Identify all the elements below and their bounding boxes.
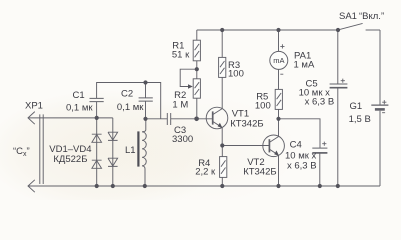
junction dot C5 top xyxy=(336,28,340,32)
connector XP1 double line xyxy=(40,114,43,184)
wire R2 bottom xyxy=(196,98,198,119)
battery G1 long positive plate xyxy=(371,104,388,106)
minus sign PA1 xyxy=(280,73,283,75)
svg-text:х 6,3 В: х 6,3 В xyxy=(287,160,317,171)
capacitor C2 plates xyxy=(139,98,153,101)
plus sign G1 xyxy=(382,100,386,104)
transistor VT2 body xyxy=(263,135,285,157)
svg-text:3300: 3300 xyxy=(172,134,193,145)
plus sign C5 xyxy=(341,79,345,83)
svg-text:100: 100 xyxy=(255,100,271,111)
wire VT1 emitter to VT2 base xyxy=(222,145,269,147)
meter PA1 body xyxy=(270,51,288,69)
battery G1 short negative plate xyxy=(375,108,385,111)
svg-text:C2: C2 xyxy=(121,89,133,100)
inductor L1 wire top xyxy=(142,119,146,132)
svg-text:C4: C4 xyxy=(290,139,302,150)
wire VT2 collector xyxy=(278,119,280,136)
inductor L1 wire bottom xyxy=(142,166,145,186)
junction dot C1 bottom xyxy=(95,116,99,120)
resistor R1 body xyxy=(193,40,200,61)
wire C2 top xyxy=(145,83,147,98)
junction dot R1 R2 xyxy=(195,67,199,71)
wire R5 bottom xyxy=(278,109,280,118)
arrowhead R2 wiper xyxy=(188,84,193,88)
wire diode column right drop xyxy=(112,118,114,186)
arrowhead VT2 emitter xyxy=(274,151,279,156)
capacitor C4 plates xyxy=(312,147,327,149)
wire R3 top xyxy=(221,30,223,57)
wire diode column left xyxy=(96,118,98,186)
junction dot L1 bottom xyxy=(143,184,147,188)
svg-text:“Вкл.”: “Вкл.” xyxy=(359,11,384,22)
diode VD2 xyxy=(92,160,102,168)
wire R4 top xyxy=(221,146,223,157)
junction dot diode right bottom xyxy=(111,184,115,188)
junction dot R4 top xyxy=(220,143,224,147)
bottom rail xyxy=(28,185,380,187)
diode VD1 xyxy=(92,134,102,142)
wire base bus through C3 xyxy=(146,118,213,120)
resistor R2 body xyxy=(193,79,200,98)
svg-text:1 М: 1 М xyxy=(172,99,188,110)
junction dot R3 top xyxy=(220,28,224,32)
top rail xyxy=(197,29,339,31)
svg-text:L1: L1 xyxy=(125,145,136,156)
svg-text:100: 100 xyxy=(228,69,244,80)
junction dot C2 bottom xyxy=(143,117,147,121)
svg-text:mA: mA xyxy=(273,56,284,65)
junction dot R4 bottom xyxy=(220,184,224,188)
svg-text:1,5 В: 1,5 В xyxy=(349,114,371,125)
connector XP1 top arrow xyxy=(28,112,35,125)
wire VT1 emitter xyxy=(221,128,223,146)
wire top right segment xyxy=(366,29,380,31)
junction dot C2 top xyxy=(143,80,147,84)
svg-text:0,1 мк: 0,1 мк xyxy=(117,102,144,113)
switch SA1 lever xyxy=(338,23,362,29)
wire R4 bottom xyxy=(221,177,223,186)
connector XP1 bottom arrow xyxy=(28,180,35,192)
wire C1 bottom xyxy=(96,102,98,118)
junction dot C5 bottom xyxy=(336,184,340,188)
svg-text:х 6,3 В: х 6,3 В xyxy=(305,96,335,107)
junction dot VT1 base xyxy=(194,117,199,122)
wire R2 wiper xyxy=(180,69,197,86)
plus sign C4 xyxy=(322,142,326,146)
capacitor C1 plates xyxy=(90,98,104,101)
junction dot C4 bottom xyxy=(318,184,322,188)
junction dot VT2 emitter bottom xyxy=(276,184,280,188)
svg-text:КТ342Б: КТ342Б xyxy=(230,119,263,130)
wire top cap bus xyxy=(97,83,161,119)
wire R3 to VT1 collector xyxy=(221,77,223,108)
svg-text:SA1: SA1 xyxy=(339,11,357,22)
wire XP1 top terminal xyxy=(28,117,113,119)
junction dot diode left bottom xyxy=(95,184,99,188)
transistor VT1 body xyxy=(206,107,228,129)
wire battery to bottom rail xyxy=(379,111,381,186)
wire C2 bottom xyxy=(145,101,147,119)
svg-text:1 мА: 1 мА xyxy=(294,60,315,71)
svg-text:0,1 мк: 0,1 мк xyxy=(66,103,93,114)
minus sign G1 xyxy=(382,112,385,114)
diode VD4 xyxy=(108,158,118,166)
wire R5 junction to C4 xyxy=(279,119,321,148)
wire R1 to R2 xyxy=(196,61,198,79)
svg-text:“Сх”: “Сх” xyxy=(13,146,30,158)
wire VT2 emitter xyxy=(278,156,280,186)
svg-text:2,2 к: 2,2 к xyxy=(195,167,216,178)
resistor R5 body xyxy=(275,89,282,109)
resistor R4 body xyxy=(220,157,227,178)
wire C5 bottom xyxy=(337,88,339,186)
junction dot PA1 top xyxy=(276,28,280,32)
svg-text:51 к: 51 к xyxy=(172,49,190,60)
resistor R3 body xyxy=(219,57,226,77)
svg-text:КД522Б: КД522Б xyxy=(53,154,87,165)
wire right vertical to battery xyxy=(379,30,381,105)
diode VD3 xyxy=(108,132,118,140)
wire C5 top xyxy=(337,30,339,84)
capacitor C5 plates xyxy=(330,83,348,85)
plus sign PA1 xyxy=(280,44,284,48)
wire PA1 top xyxy=(278,30,280,51)
arrowhead VT1 emitter xyxy=(218,123,223,128)
wire C4 bottom xyxy=(319,153,321,186)
junction dot R5 bottom xyxy=(276,117,280,121)
inductor L1 winding xyxy=(142,132,146,166)
capacitor C3 plates xyxy=(167,113,170,125)
svg-text:ХР1: ХР1 xyxy=(25,101,43,112)
svg-text:КТ342Б: КТ342Б xyxy=(243,166,276,177)
wire PA1 to R5 xyxy=(278,69,280,89)
svg-text:C1: C1 xyxy=(73,90,85,101)
wire R1 top xyxy=(196,30,198,40)
inductor L1 core bar xyxy=(137,131,139,166)
svg-text:G1: G1 xyxy=(350,101,363,112)
